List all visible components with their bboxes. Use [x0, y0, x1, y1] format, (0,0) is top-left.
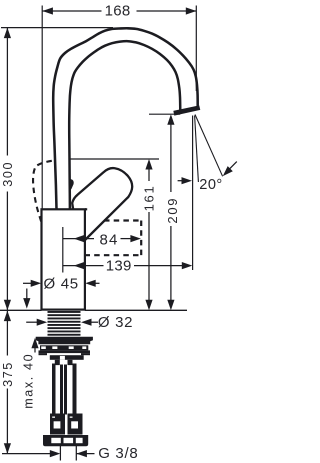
20 deg jet lines: [195, 116, 199, 183]
mounting nut: [36, 337, 93, 344]
svg-text:20°: 20°: [199, 177, 223, 193]
svg-text:209: 209: [165, 197, 180, 224]
washer band with slots: [40, 345, 88, 350]
svg-text:G 3/8: G 3/8: [98, 445, 138, 462]
dashed handle down-position box: [104, 219, 141, 221]
20 deg horizontal arrow: [178, 180, 183, 182]
hose connector right: [68, 414, 83, 435]
bottom dim line y453.6: [2, 453, 50, 455]
svg-text:139: 139: [106, 258, 132, 275]
dim 168 line: [42, 10, 101, 12]
threaded shank: [48, 311, 81, 313]
spout outer edge: [53, 28, 198, 209]
dim 209: [149, 113, 180, 115]
faucet body: [42, 209, 85, 309]
G3/8 ext lines: [59, 444, 61, 461]
spout tip face: [174, 106, 200, 115]
hose connector left: [50, 414, 65, 435]
dim 300/375 vertical line: [6, 28, 8, 156]
svg-text:300: 300: [1, 161, 15, 187]
ext line top y27.6: [1, 27, 113, 29]
svg-text:168: 168: [105, 2, 131, 19]
ext line x192.6 (aerator centre): [192, 116, 194, 271]
bottom flange: [43, 435, 88, 446]
20 deg leader arrow: [230, 162, 237, 169]
dim dia45: [23, 282, 32, 284]
svg-text:375: 375: [1, 361, 15, 387]
svg-text:Ø 32: Ø 32: [98, 314, 133, 331]
svg-text:161: 161: [142, 185, 157, 212]
dim 161: [69, 158, 159, 160]
dashed handle up-position outline: [33, 161, 52, 223]
max40 upper arrow: [26, 289, 28, 301]
handle lever: [72, 168, 132, 240]
max40 lower arrow: [31, 338, 38, 349]
fixing block + screws: [50, 355, 84, 360]
svg-text:84: 84: [99, 231, 118, 248]
body centerline tick: [62, 227, 64, 273]
clamp band: [39, 350, 91, 353]
spout inner edge: [69, 41, 180, 209]
svg-text:max. 40: max. 40: [22, 353, 36, 409]
dim 84: [63, 238, 94, 240]
technical dimensional drawing of single-hole basin mixer tap: [0, 0, 239, 463]
ext line right x196: [195, 6, 197, 92]
dim dia32: [26, 321, 37, 323]
svg-text:Ø 45: Ø 45: [44, 275, 79, 292]
supply hoses: [52, 364, 56, 415]
mounting surface line: [0, 309, 42, 311]
ext line left x42: [41, 6, 43, 209]
handle wedge detail: [70, 179, 74, 190]
dim 139: [63, 265, 104, 267]
